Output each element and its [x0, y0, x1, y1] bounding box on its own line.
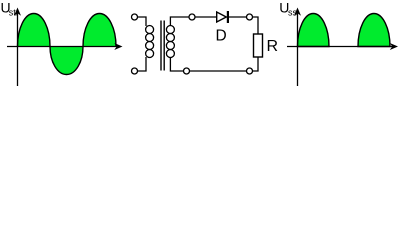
- svg-text:ss: ss: [288, 7, 298, 17]
- svg-text:D: D: [216, 28, 227, 45]
- svg-text:str: str: [9, 7, 19, 17]
- svg-text:R: R: [267, 38, 279, 55]
